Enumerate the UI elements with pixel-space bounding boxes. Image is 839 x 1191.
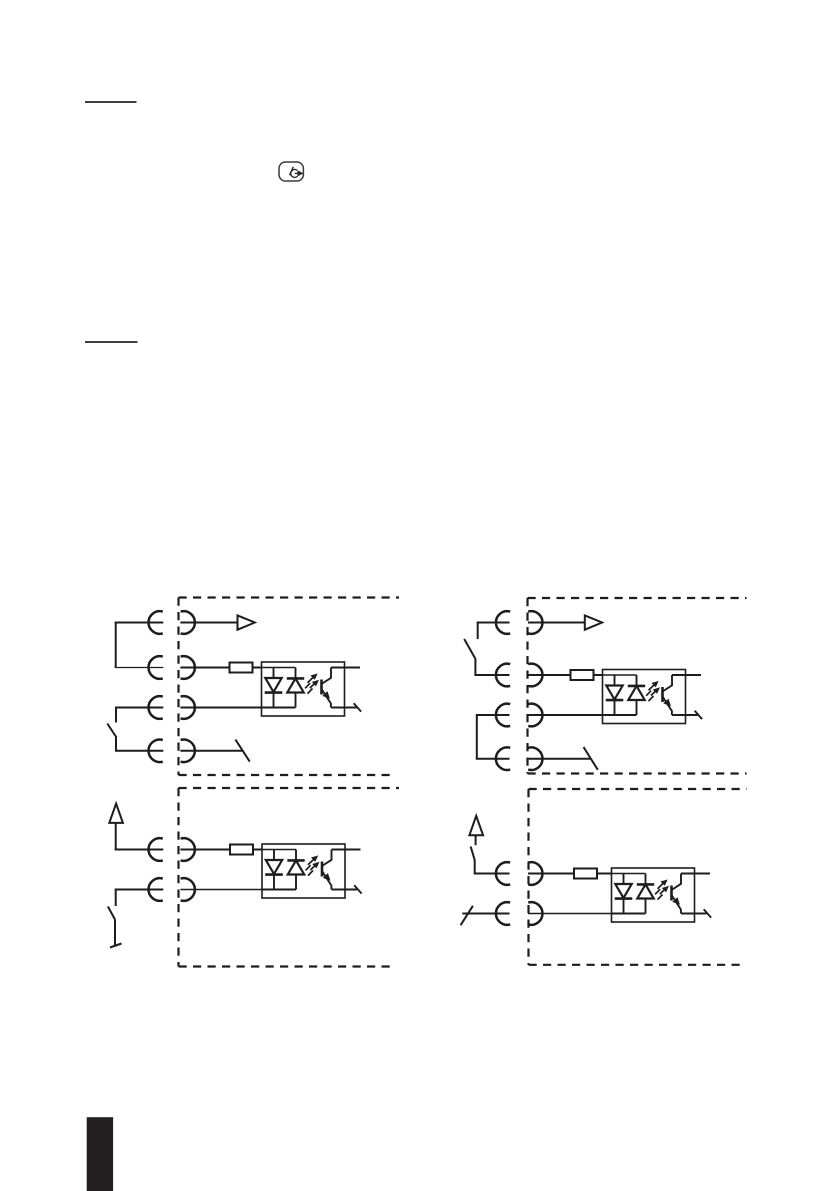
arrow D up bbox=[469, 816, 483, 835]
terminal tick C bbox=[110, 944, 122, 948]
LED D4a (down) bbox=[623, 874, 625, 885]
light arrow 2-1 bbox=[646, 684, 655, 696]
connector B1 socket bbox=[496, 611, 510, 634]
wire A row1 signal bbox=[180, 622, 237, 624]
light arrow 1-2 bbox=[308, 683, 316, 694]
wire U2 collector out bbox=[672, 674, 701, 676]
icon rounded button bbox=[279, 162, 303, 181]
connector A4 pin bbox=[181, 740, 195, 763]
wire U4 anode rail bbox=[611, 873, 646, 875]
enclosure A dashed top edge bbox=[179, 596, 400, 598]
wire U4 emitter out bbox=[681, 913, 707, 915]
wire D row2 left stub bbox=[462, 913, 509, 915]
light arrow 2-2 bbox=[649, 691, 657, 702]
wire A row2 to resistor bbox=[180, 667, 229, 669]
wire A row2 left stub bbox=[115, 667, 164, 669]
enclosure A dashed bottom edge bbox=[179, 774, 397, 776]
light arrow 3-2 bbox=[308, 865, 316, 876]
connector A2 pin bbox=[181, 656, 195, 679]
resistor RA bbox=[230, 663, 253, 673]
LED D4b (up) bbox=[645, 874, 647, 885]
wire C row2 drop bbox=[115, 890, 117, 907]
resistor RD bbox=[574, 869, 597, 879]
connector D2 socket bbox=[496, 902, 510, 925]
heading underline 2 bbox=[85, 341, 138, 343]
enclosure D dashed top edge bbox=[529, 788, 747, 790]
wire B row4 stub right bbox=[528, 758, 591, 760]
optocoupler U4 body bbox=[612, 868, 695, 922]
connector D1 socket bbox=[496, 862, 510, 885]
light arrow 3-1 bbox=[306, 859, 315, 871]
wire C row2 left stub bbox=[115, 889, 164, 891]
connector B3 socket bbox=[496, 704, 510, 727]
phototransistor Q3 bbox=[321, 862, 324, 877]
wire U1 collector out bbox=[331, 667, 360, 669]
wire B row1 left stub bbox=[477, 622, 510, 624]
wire A link 1-2 vertical bbox=[115, 623, 117, 668]
LED D1a (down) bbox=[273, 668, 275, 679]
wire D arrow drop bbox=[475, 835, 477, 845]
connector B4 pin bbox=[528, 747, 542, 770]
arrow C up bbox=[109, 804, 123, 823]
switch SD lever bbox=[471, 846, 475, 860]
wire D resistor to U4 bbox=[597, 873, 612, 875]
connector A3 socket bbox=[149, 696, 163, 719]
enclosure C dashed bottom edge bbox=[179, 965, 396, 967]
wire B row1 drop bbox=[477, 623, 479, 640]
connector B3 pin bbox=[528, 704, 542, 727]
connector C2 pin bbox=[181, 878, 195, 901]
enclosure A dashed left edge bbox=[177, 598, 179, 776]
wire U1 anode rail bbox=[261, 667, 296, 669]
wire-break slash A row4 bbox=[235, 740, 249, 762]
connector B2 socket bbox=[496, 664, 510, 687]
light arrow 4-2 bbox=[658, 889, 666, 900]
wire B resistor to U2 bbox=[594, 674, 603, 676]
wire A row4 stub right bbox=[180, 750, 243, 752]
wire C resistor to U3 bbox=[253, 849, 262, 851]
wire B row2 rise bbox=[474, 659, 476, 675]
enclosure B dashed bottom edge bbox=[528, 772, 747, 774]
switch SC lever bbox=[108, 907, 115, 920]
wire B row3 left stub bbox=[476, 714, 510, 716]
wire U4 collector out bbox=[681, 873, 710, 875]
phototransistor Q2 bbox=[661, 687, 664, 702]
wire-break slash U4 out bbox=[704, 909, 711, 917]
wire B row1 signal bbox=[528, 622, 585, 624]
connector D1 pin bbox=[528, 862, 542, 885]
enclosure D dashed bottom edge bbox=[529, 964, 747, 966]
connector A4 socket bbox=[149, 740, 163, 763]
enclosure B dashed left edge bbox=[526, 598, 528, 774]
arrow A row1 bbox=[238, 615, 255, 629]
connector A2 socket bbox=[149, 656, 163, 679]
heading underline 1 bbox=[85, 101, 137, 103]
icon slash bbox=[290, 167, 294, 175]
wire U3 collector out bbox=[332, 849, 361, 851]
wire D row1 left stub bbox=[474, 873, 510, 875]
wire C row1 to resistor bbox=[180, 849, 230, 851]
wire-break slash U1 out bbox=[354, 703, 361, 711]
wire C arrow drop bbox=[115, 823, 117, 850]
LED D1b (up) bbox=[295, 668, 297, 679]
connector A1 socket bbox=[149, 611, 163, 634]
wire U3 anode rail bbox=[261, 849, 296, 851]
connector C1 socket bbox=[149, 838, 163, 861]
wire U2 cathode rail bbox=[602, 714, 637, 716]
wire C row1 left stub bbox=[115, 849, 164, 851]
light arrow 4-1 bbox=[655, 883, 664, 895]
LED D2a (down) bbox=[614, 675, 616, 686]
wire-break slash U2 out bbox=[695, 711, 702, 719]
wire-break slash B row4 bbox=[584, 747, 598, 770]
connector A1 pin bbox=[181, 611, 195, 634]
wire B row2 to resistor bbox=[528, 674, 571, 676]
wire D row2 to U4 bbox=[528, 913, 612, 915]
wire A row3 to U1 bbox=[180, 707, 261, 709]
wire U3 emitter out bbox=[332, 889, 358, 891]
wire A row3 left stub bbox=[115, 707, 163, 709]
optocoupler U2 body bbox=[603, 670, 686, 724]
wire B link 3-4 vertical bbox=[476, 715, 478, 759]
LED D2b (up) bbox=[636, 675, 638, 686]
switch SB lever bbox=[464, 639, 475, 659]
connector C1 pin bbox=[181, 838, 195, 861]
wire U2 emitter out bbox=[672, 714, 698, 716]
wire U3 cathode rail bbox=[261, 889, 296, 891]
wire B row4 left stub bbox=[476, 758, 510, 760]
icon arrow bbox=[295, 172, 299, 174]
resistor RB bbox=[571, 670, 594, 680]
arrow B row1 bbox=[585, 615, 602, 629]
wire U1 emitter out bbox=[331, 707, 357, 709]
connector C2 socket bbox=[149, 878, 163, 901]
connector B1 pin bbox=[528, 611, 542, 634]
enclosure C dashed left edge bbox=[177, 788, 179, 967]
wire B row2 left stub bbox=[474, 674, 509, 676]
resistor RC bbox=[230, 845, 253, 855]
connector B2 pin bbox=[528, 664, 542, 687]
wire U1 cathode rail bbox=[261, 707, 296, 709]
wire D row1 to resistor bbox=[528, 873, 574, 875]
connector B4 socket bbox=[496, 747, 510, 770]
enclosure D dashed left edge bbox=[527, 789, 529, 965]
wire U4 cathode rail bbox=[611, 913, 646, 915]
connector A3 pin bbox=[181, 696, 195, 719]
optocoupler U3 body bbox=[262, 844, 345, 898]
wire A row4 rise bbox=[115, 737, 117, 751]
page footer black tab bbox=[87, 1117, 113, 1191]
phototransistor Q1 bbox=[320, 680, 323, 695]
connector D2 pin bbox=[528, 902, 542, 925]
LED D3a (down) bbox=[273, 850, 275, 861]
wire-break slash U3 out bbox=[354, 885, 361, 893]
icon circle bbox=[291, 169, 298, 177]
wire D row1 rise bbox=[474, 860, 476, 874]
phototransistor Q4 bbox=[670, 886, 673, 901]
LED D3b (up) bbox=[295, 850, 297, 861]
light arrow 1-1 bbox=[305, 677, 314, 689]
optocoupler U1 body bbox=[262, 662, 345, 716]
wire A row1 left stub bbox=[115, 622, 164, 624]
enclosure B dashed top edge bbox=[528, 597, 747, 599]
wire B row3 to U2 bbox=[528, 714, 603, 716]
wire A row4 left stub bbox=[115, 750, 163, 752]
wire C switch drop bbox=[114, 919, 116, 945]
switch SA lever bbox=[107, 724, 116, 738]
wire A resistor to U1 bbox=[253, 667, 262, 669]
wire U2 anode rail bbox=[602, 674, 637, 676]
enclosure C dashed top edge bbox=[179, 787, 400, 789]
wire-break slash D row2 bbox=[461, 906, 473, 925]
wire A row3 drop bbox=[115, 708, 117, 723]
wire C row2 to U3 bbox=[180, 889, 262, 891]
